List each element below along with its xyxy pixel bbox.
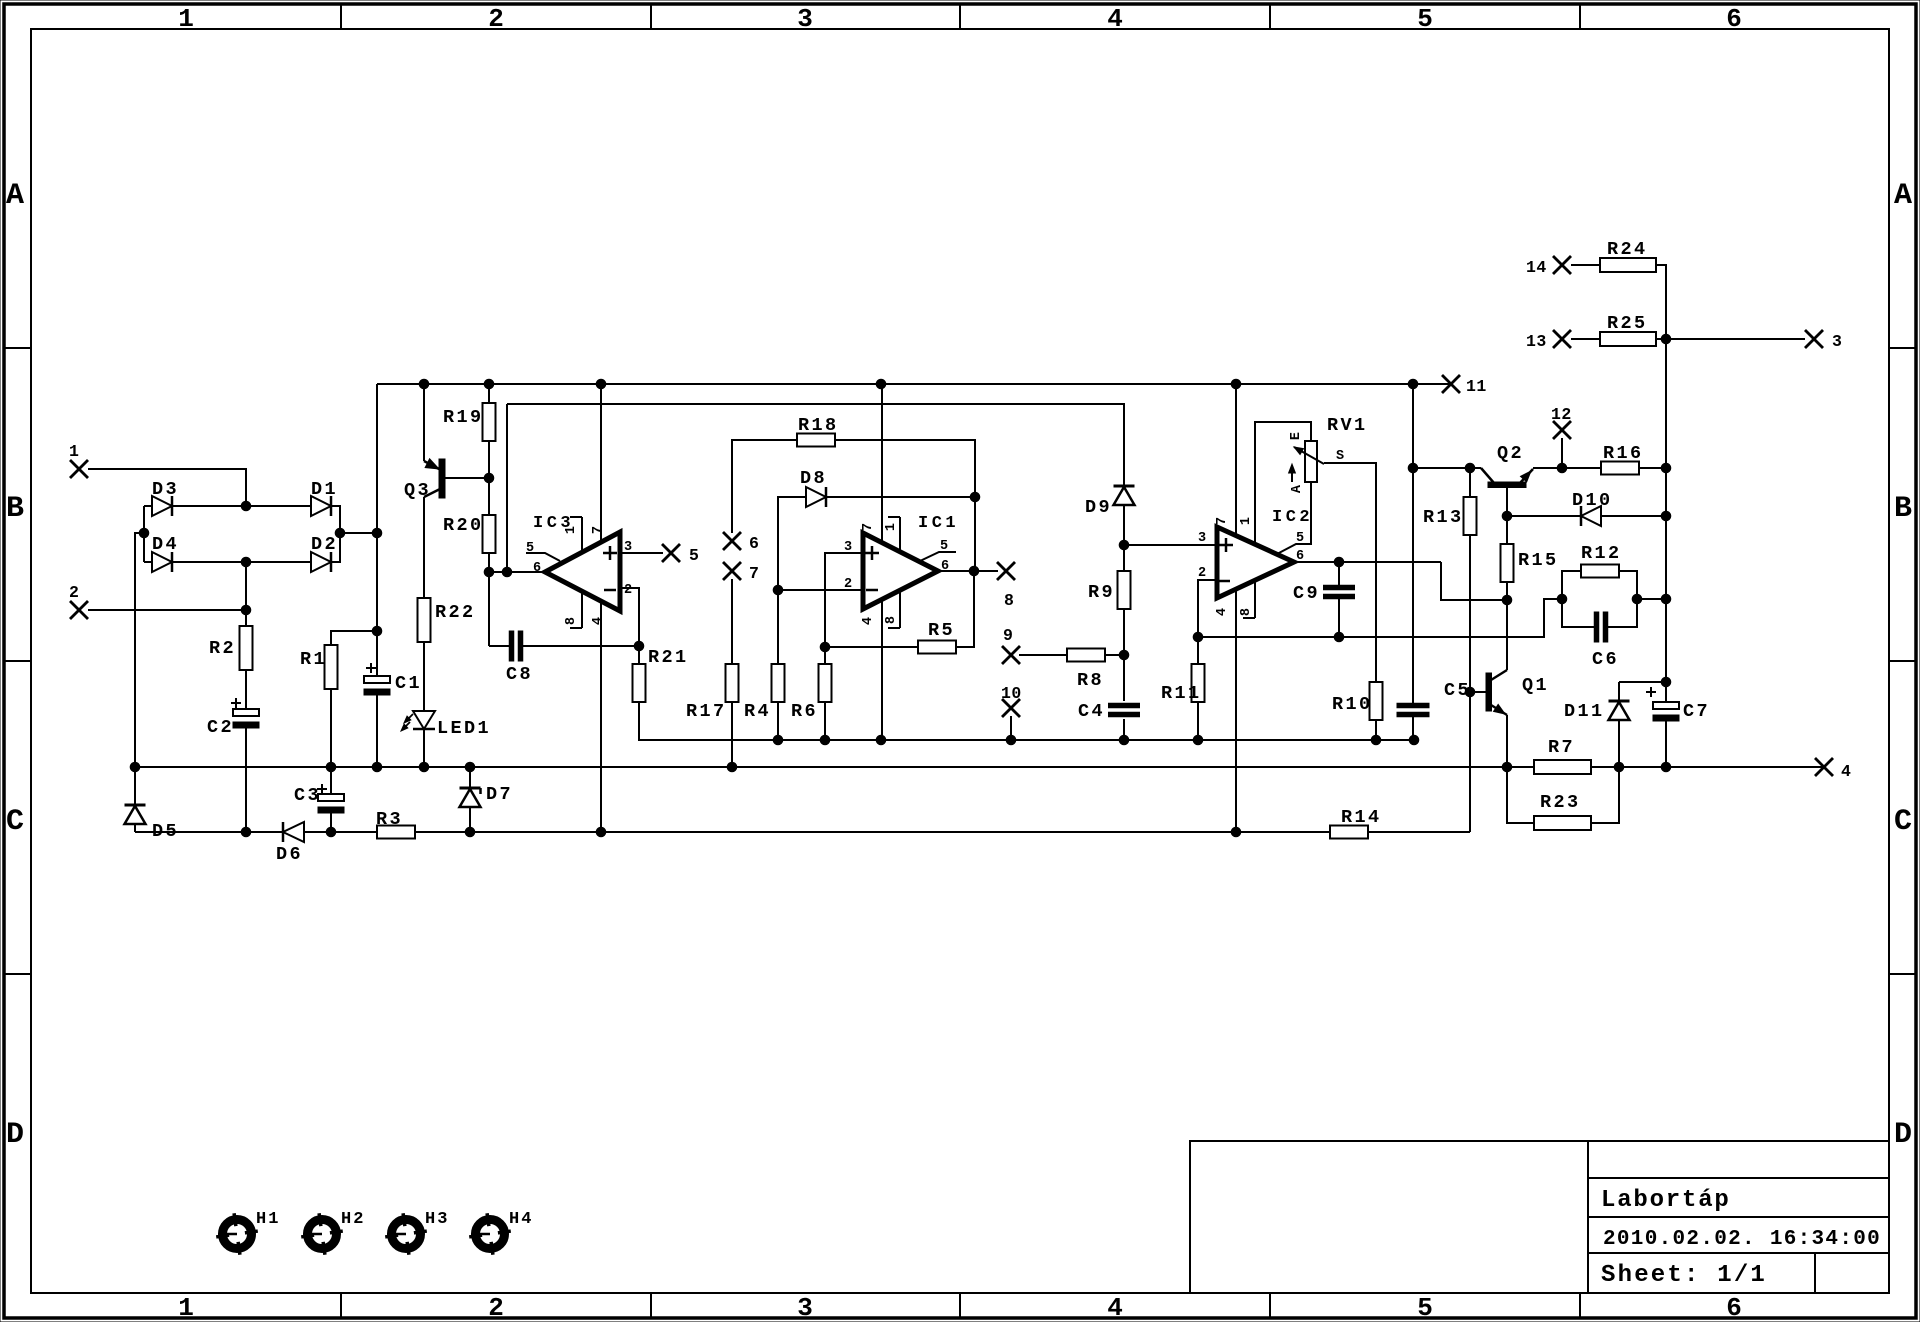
svg-text:LED1: LED1 bbox=[437, 718, 491, 739]
svg-text:R16: R16 bbox=[1603, 443, 1644, 464]
svg-text:C3: C3 bbox=[294, 785, 321, 806]
svg-text:1: 1 bbox=[564, 526, 579, 534]
svg-text:1: 1 bbox=[1239, 517, 1254, 525]
svg-text:R1: R1 bbox=[300, 649, 327, 670]
svg-text:R9: R9 bbox=[1088, 582, 1115, 603]
svg-text:R5: R5 bbox=[928, 620, 955, 641]
svg-text:E: E bbox=[1289, 432, 1304, 440]
svg-text:7: 7 bbox=[861, 523, 876, 531]
svg-text:6: 6 bbox=[1726, 1293, 1742, 1322]
svg-text:R2: R2 bbox=[209, 638, 236, 659]
svg-text:H3: H3 bbox=[425, 1210, 449, 1229]
svg-text:6: 6 bbox=[1726, 4, 1742, 34]
svg-text:Labortáp: Labortáp bbox=[1601, 1187, 1731, 1214]
svg-text:2: 2 bbox=[488, 1293, 504, 1322]
svg-text:D11: D11 bbox=[1564, 701, 1605, 722]
svg-text:4: 4 bbox=[1215, 608, 1230, 616]
svg-text:D1: D1 bbox=[311, 479, 338, 500]
svg-text:R23: R23 bbox=[1540, 792, 1581, 813]
svg-text:R10: R10 bbox=[1332, 694, 1373, 715]
svg-text:A: A bbox=[1290, 484, 1305, 493]
svg-text:R8: R8 bbox=[1077, 670, 1104, 691]
svg-text:Q1: Q1 bbox=[1522, 675, 1549, 696]
svg-text:1: 1 bbox=[178, 1293, 194, 1322]
svg-text:4: 4 bbox=[1107, 1293, 1123, 1322]
svg-text:D: D bbox=[6, 1118, 24, 1152]
svg-text:8: 8 bbox=[1004, 591, 1014, 610]
svg-text:7: 7 bbox=[591, 526, 606, 534]
svg-text:H1: H1 bbox=[256, 1210, 280, 1229]
svg-text:A: A bbox=[6, 179, 24, 213]
svg-text:D9: D9 bbox=[1085, 497, 1112, 518]
svg-text:5: 5 bbox=[526, 541, 534, 556]
svg-text:C6: C6 bbox=[1592, 649, 1619, 670]
svg-text:D7: D7 bbox=[486, 784, 513, 805]
svg-text:R22: R22 bbox=[435, 602, 476, 623]
svg-text:R18: R18 bbox=[798, 415, 839, 436]
svg-text:D10: D10 bbox=[1572, 490, 1613, 511]
svg-text:C: C bbox=[1894, 805, 1912, 839]
svg-text:5: 5 bbox=[1296, 531, 1304, 546]
svg-text:13: 13 bbox=[1526, 332, 1547, 351]
svg-text:1: 1 bbox=[178, 4, 194, 34]
svg-text:C9: C9 bbox=[1293, 583, 1320, 604]
svg-text:R19: R19 bbox=[443, 407, 484, 428]
svg-text:4: 4 bbox=[861, 617, 876, 625]
svg-text:14: 14 bbox=[1526, 258, 1547, 277]
svg-text:R3: R3 bbox=[376, 809, 403, 830]
svg-text:1: 1 bbox=[884, 523, 899, 531]
svg-text:R4: R4 bbox=[744, 701, 771, 722]
svg-text:R14: R14 bbox=[1341, 807, 1382, 828]
svg-text:C8: C8 bbox=[506, 664, 533, 685]
svg-text:9: 9 bbox=[1003, 626, 1013, 645]
svg-text:6: 6 bbox=[533, 561, 541, 576]
svg-text:D5: D5 bbox=[152, 821, 179, 842]
svg-text:D4: D4 bbox=[152, 534, 179, 555]
svg-text:5: 5 bbox=[940, 539, 948, 554]
svg-text:2: 2 bbox=[844, 577, 852, 592]
svg-text:H2: H2 bbox=[341, 1210, 365, 1229]
svg-text:5: 5 bbox=[1417, 1293, 1433, 1322]
svg-text:R15: R15 bbox=[1518, 550, 1559, 571]
svg-text:2010.02.02. 16:34:00: 2010.02.02. 16:34:00 bbox=[1603, 1228, 1881, 1251]
svg-text:D6: D6 bbox=[276, 844, 303, 865]
svg-text:D8: D8 bbox=[800, 468, 827, 489]
svg-text:8: 8 bbox=[564, 617, 579, 625]
svg-text:B: B bbox=[6, 492, 24, 526]
svg-text:11: 11 bbox=[1466, 377, 1487, 396]
svg-text:5: 5 bbox=[689, 546, 699, 565]
svg-text:10: 10 bbox=[1001, 684, 1022, 703]
svg-text:7: 7 bbox=[1215, 517, 1230, 525]
svg-text:8: 8 bbox=[1239, 608, 1254, 616]
svg-text:R25: R25 bbox=[1607, 313, 1648, 334]
svg-text:R12: R12 bbox=[1581, 543, 1622, 564]
svg-text:H4: H4 bbox=[509, 1210, 533, 1229]
svg-text:R7: R7 bbox=[1548, 737, 1575, 758]
svg-text:3: 3 bbox=[797, 1293, 813, 1322]
svg-text:7: 7 bbox=[749, 564, 759, 583]
svg-text:R24: R24 bbox=[1607, 239, 1648, 260]
svg-text:4: 4 bbox=[1107, 4, 1123, 34]
svg-text:R20: R20 bbox=[443, 515, 484, 536]
svg-text:R11: R11 bbox=[1161, 683, 1202, 704]
svg-text:RV1: RV1 bbox=[1327, 415, 1368, 436]
svg-text:C: C bbox=[6, 805, 24, 839]
svg-text:6: 6 bbox=[1296, 549, 1304, 564]
svg-text:B: B bbox=[1894, 492, 1912, 526]
svg-text:IC1: IC1 bbox=[918, 514, 959, 533]
svg-text:1: 1 bbox=[69, 442, 79, 461]
svg-text:IC2: IC2 bbox=[1272, 508, 1313, 527]
svg-text:D2: D2 bbox=[311, 534, 338, 555]
svg-text:C1: C1 bbox=[395, 673, 422, 694]
svg-text:Sheet: 1/1: Sheet: 1/1 bbox=[1601, 1262, 1767, 1289]
svg-text:12: 12 bbox=[1551, 405, 1572, 424]
svg-text:R6: R6 bbox=[791, 701, 818, 722]
svg-text:8: 8 bbox=[884, 616, 899, 624]
svg-text:A: A bbox=[1894, 179, 1912, 213]
svg-text:S: S bbox=[1336, 449, 1344, 464]
svg-text:3: 3 bbox=[624, 540, 632, 555]
svg-text:R13: R13 bbox=[1423, 507, 1464, 528]
svg-text:C7: C7 bbox=[1683, 701, 1710, 722]
svg-text:2: 2 bbox=[69, 583, 79, 602]
svg-text:6: 6 bbox=[941, 559, 949, 574]
svg-text:2: 2 bbox=[488, 4, 504, 34]
svg-text:D3: D3 bbox=[152, 479, 179, 500]
svg-text:2: 2 bbox=[1198, 566, 1206, 581]
svg-text:3: 3 bbox=[1198, 531, 1206, 546]
svg-text:5: 5 bbox=[1417, 4, 1433, 34]
svg-text:C2: C2 bbox=[207, 717, 234, 738]
svg-text:6: 6 bbox=[749, 534, 759, 553]
svg-text:2: 2 bbox=[624, 583, 632, 598]
svg-text:Q3: Q3 bbox=[404, 480, 431, 501]
svg-text:3: 3 bbox=[844, 540, 852, 555]
svg-text:C4: C4 bbox=[1078, 701, 1105, 722]
svg-text:4: 4 bbox=[591, 617, 606, 625]
svg-text:4: 4 bbox=[1841, 762, 1851, 781]
svg-text:Q2: Q2 bbox=[1497, 443, 1524, 464]
svg-text:D: D bbox=[1894, 1118, 1912, 1152]
svg-text:R21: R21 bbox=[648, 647, 689, 668]
svg-text:3: 3 bbox=[797, 4, 813, 34]
svg-text:3: 3 bbox=[1832, 332, 1842, 351]
svg-text:R17: R17 bbox=[686, 701, 727, 722]
